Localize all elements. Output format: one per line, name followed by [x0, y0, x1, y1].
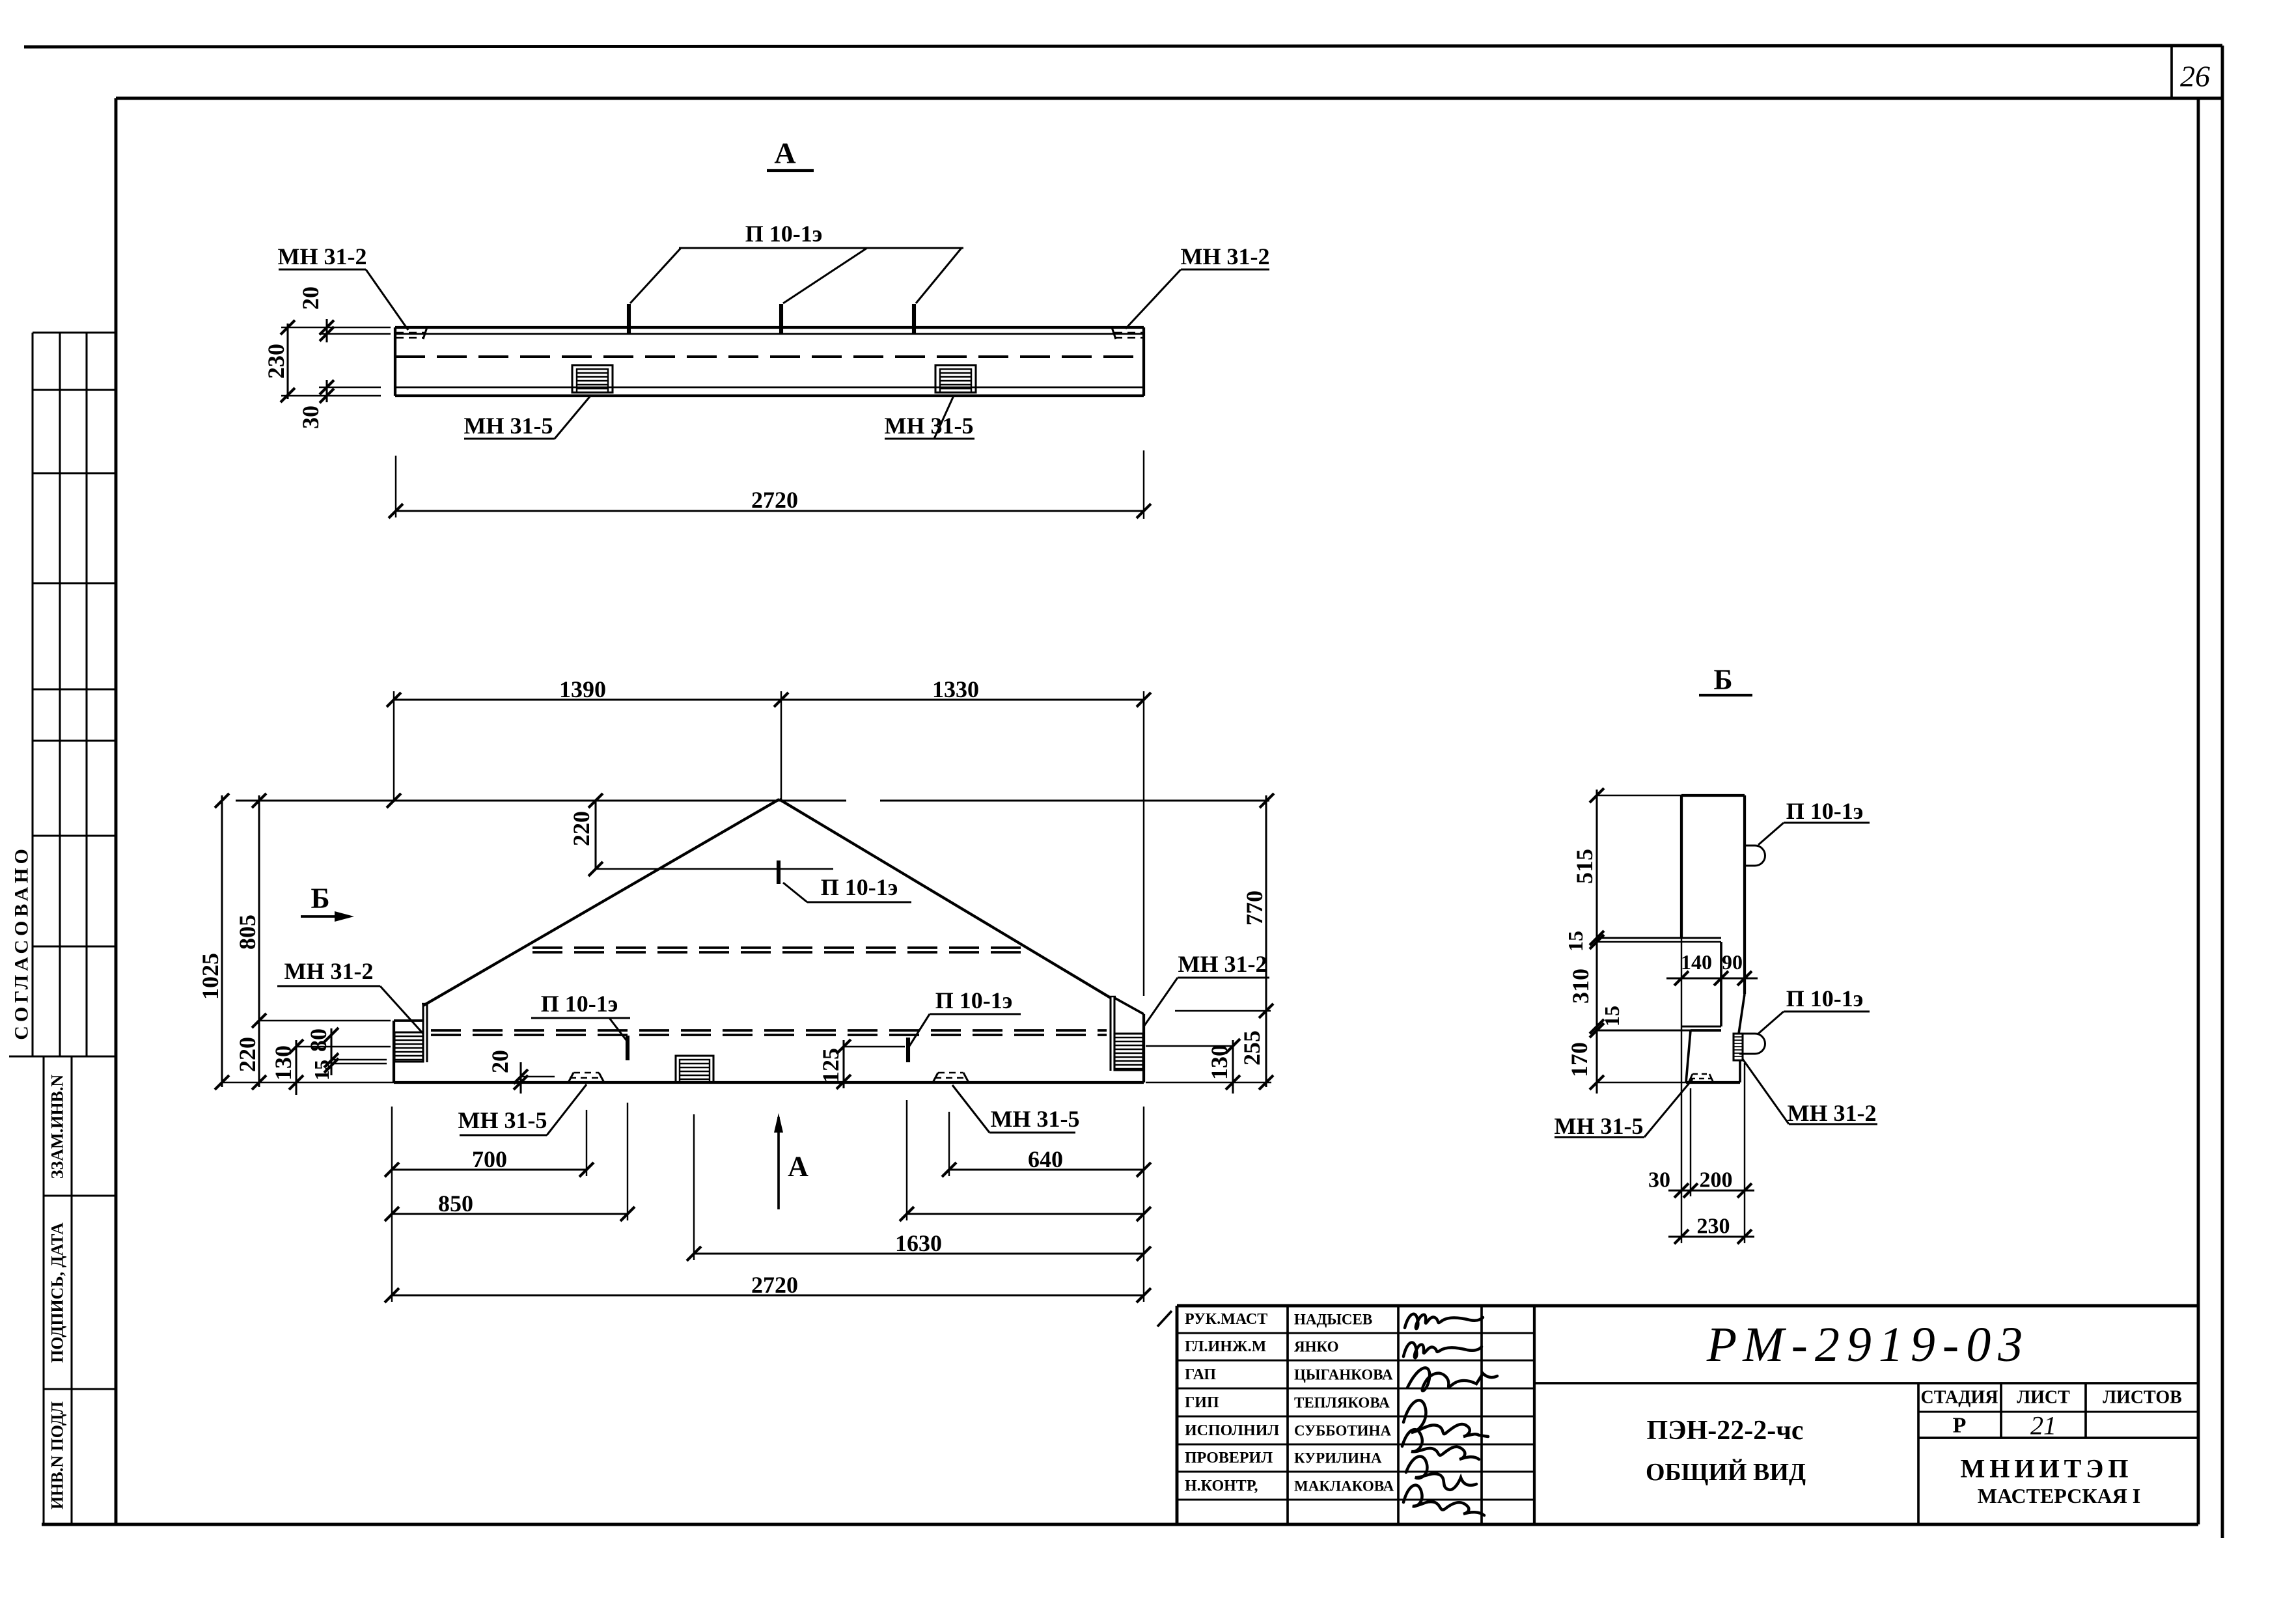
svg-text:805: 805 [234, 915, 260, 950]
svg-text:А: А [774, 137, 795, 170]
plan panel lower inner line [395, 387, 1144, 389]
section bottom extension line [1597, 1082, 1686, 1083]
anchor MN 31-5 right dashed [933, 1073, 938, 1082]
section left face extension to dims [1681, 938, 1682, 1243]
plan extension lines [281, 327, 391, 328]
elevation dimension 805 and 220 chain [258, 795, 260, 1087]
svg-text:ТЕПЛЯКОВА: ТЕПЛЯКОВА [1294, 1395, 1390, 1411]
title block column lines [1286, 1306, 1289, 1524]
section mark A arrow [777, 1117, 780, 1209]
svg-text:Б: Б [311, 883, 329, 915]
svg-text:МНИИТЭП: МНИИТЭП [1960, 1454, 2133, 1483]
plan panel dashed axis line [395, 355, 1144, 358]
svg-text:Р: Р [1953, 1414, 1967, 1438]
section recess bottom second line [1597, 1029, 1721, 1031]
svg-text:850: 850 [438, 1190, 473, 1217]
elevation dimension 1025 [221, 795, 223, 1087]
elevation dimension 850 [392, 1213, 628, 1215]
svg-text:26: 26 [2180, 60, 2210, 93]
svg-text:230: 230 [1697, 1215, 1730, 1239]
svg-text:220: 220 [568, 811, 594, 846]
svg-text:МН 31-2: МН 31-2 [278, 243, 367, 269]
section lifting loop P 10-1e upper [1745, 846, 1765, 866]
svg-text:МН 31-2: МН 31-2 [1178, 951, 1267, 977]
svg-text:30: 30 [1648, 1168, 1670, 1192]
section step second line 15 below [1597, 941, 1721, 943]
plan dimension 230 [286, 323, 288, 399]
svg-text:РМ-2919-03: РМ-2919-03 [1706, 1317, 2030, 1372]
section recess left edge [1720, 942, 1722, 1026]
elevation dimension 130 right [1232, 1040, 1234, 1094]
svg-text:80: 80 [305, 1028, 331, 1052]
section lifting loop P 10-1e lower [1739, 1034, 1765, 1054]
gable left slope [423, 799, 779, 1006]
svg-text:ОБЩИЙ ВИД: ОБЩИЙ ВИД [1646, 1459, 1806, 1486]
svg-text:П 10-1э: П 10-1э [1786, 985, 1864, 1012]
svg-text:125: 125 [818, 1048, 844, 1083]
title block signatures [1405, 1314, 1483, 1328]
svg-text:15: 15 [1600, 1006, 1624, 1026]
svg-text:515: 515 [1571, 849, 1597, 884]
svg-text:140: 140 [1681, 950, 1712, 974]
sidebar approval table rows [33, 331, 116, 333]
section right face lower slant [1739, 994, 1745, 1034]
lifting loop P 10-1e elevation right [906, 1038, 910, 1062]
title block divider under document number [1534, 1382, 2198, 1384]
elevation dimension 130 left [295, 1040, 297, 1095]
plan panel bottom edge [395, 394, 1144, 397]
section profile right face [1743, 795, 1746, 994]
svg-text:ПОДПИСЬ, ДАТА: ПОДПИСЬ, ДАТА [48, 1222, 67, 1363]
svg-text:170: 170 [1566, 1042, 1592, 1077]
svg-text:МН 31-5: МН 31-5 [458, 1107, 547, 1133]
section anchor MN 31-2 hatched [1734, 1034, 1743, 1060]
sheet number box 26 [2170, 47, 2173, 98]
plan dimension 2720 [396, 510, 1144, 512]
svg-text:Б: Б [1713, 664, 1732, 696]
svg-text:СОГЛАСОВАНО: СОГЛАСОВАНО [11, 845, 33, 1040]
svg-text:ЦЫГАНКОВА: ЦЫГАНКОВА [1294, 1367, 1393, 1383]
title block personnel rows [1177, 1332, 1534, 1334]
right end step slant [1114, 998, 1144, 1014]
gable right slope [779, 799, 1111, 998]
svg-text:МН 31-2: МН 31-2 [1788, 1100, 1877, 1126]
svg-text:П 10-1э: П 10-1э [821, 874, 898, 900]
drawing frame right inner border [2197, 98, 2200, 1524]
drawing frame top border [116, 97, 2222, 100]
elevation dimension extension lines top [393, 691, 394, 802]
svg-text:ГАП: ГАП [1185, 1366, 1216, 1383]
svg-text:ЛИСТОВ: ЛИСТОВ [2103, 1388, 2182, 1408]
sidebar lower columns [42, 1056, 44, 1524]
elevation dimension 700 [392, 1168, 587, 1170]
drawing frame left border [115, 98, 118, 1524]
section profile top edge [1681, 794, 1745, 797]
svg-text:1025: 1025 [197, 953, 223, 1000]
svg-text:КУРИЛИНА: КУРИЛИНА [1294, 1450, 1382, 1466]
svg-text:ЯНКО: ЯНКО [1294, 1339, 1339, 1355]
left end top edge [394, 1019, 423, 1022]
anchor MN 31-5 left dashed [568, 1073, 573, 1082]
elevation dimension 640 [949, 1168, 1144, 1170]
svg-text:П 10-1э: П 10-1э [541, 991, 618, 1017]
svg-text:МН 31-2: МН 31-2 [1181, 243, 1270, 269]
svg-text:СУББОТИНА: СУББОТИНА [1294, 1423, 1391, 1439]
svg-text:СТАДИЯ: СТАДИЯ [1921, 1388, 1998, 1408]
svg-text:20: 20 [487, 1050, 513, 1073]
svg-text:ЛИСТ: ЛИСТ [2017, 1388, 2070, 1408]
svg-text:МН 31-5: МН 31-5 [1555, 1113, 1644, 1139]
section dimension 230 [1668, 1235, 1754, 1237]
section step line 515 level [1597, 937, 1721, 939]
section lower part left slant [1686, 1030, 1691, 1082]
svg-text:30: 30 [297, 406, 324, 429]
title block outer frame [1177, 1304, 2198, 1308]
svg-text:130: 130 [1206, 1045, 1232, 1080]
sidebar approval table verticals [31, 333, 33, 1056]
plan panel left edge [394, 327, 396, 396]
panel right edge [1142, 1014, 1145, 1082]
lifting loop P 10-1e elevation left [626, 1036, 629, 1060]
svg-text:МН 31-5: МН 31-5 [885, 413, 974, 439]
svg-text:Н.КОНТР,: Н.КОНТР, [1185, 1478, 1258, 1494]
plan dimension 30 [325, 380, 327, 402]
elevation dimension 15 [324, 1058, 339, 1073]
svg-text:20: 20 [297, 286, 324, 310]
section bottom extension verticals [1690, 1088, 1691, 1196]
svg-text:770: 770 [1241, 890, 1267, 926]
plan right notch MN 31-2 dashed [1114, 332, 1143, 333]
elevation dimension 220 at apex [594, 801, 596, 869]
lifting loop P 10-1e elevation apex [777, 860, 781, 884]
svg-text:2720: 2720 [751, 1272, 798, 1298]
elevation dimension 1630 [694, 1252, 1144, 1254]
svg-text:1330: 1330 [932, 676, 979, 702]
section top extension line [1597, 795, 1681, 796]
right end rib double line [1109, 997, 1111, 1071]
page top border line [24, 46, 2222, 47]
elevation dimension 20 [519, 1062, 521, 1094]
svg-text:МАСТЕРСКАЯ I: МАСТЕРСКАЯ I [1978, 1484, 2140, 1507]
svg-text:ГЛ.ИНЖ.М: ГЛ.ИНЖ.М [1185, 1338, 1266, 1355]
sidebar lower row dividers [44, 1194, 116, 1196]
section profile left face [1680, 795, 1683, 938]
svg-text:310: 310 [1568, 969, 1594, 1004]
section dimension 140 and 90 [1666, 977, 1758, 979]
section lower right edge [1739, 1060, 1741, 1082]
svg-text:130: 130 [270, 1045, 296, 1080]
section anchor MN 31-5 dashed [1689, 1074, 1693, 1082]
elevation top reference line [236, 799, 846, 801]
elevation dimension 125 [842, 1040, 844, 1088]
section lower part top edge [1691, 1029, 1721, 1032]
section recess bottom first line [1681, 1025, 1721, 1027]
plan lifting loop P 10-1e right [912, 304, 916, 333]
elevation dimension 2720 [392, 1294, 1144, 1296]
elevation top reference extension ticks [1260, 793, 1274, 808]
svg-text:255: 255 [1239, 1030, 1265, 1066]
svg-text:700: 700 [472, 1146, 507, 1172]
plan lifting loop P 10-1e middle [779, 304, 783, 333]
svg-text:ЗЗАМ.ИНВ.N: ЗЗАМ.ИНВ.N [48, 1075, 67, 1179]
svg-text:П 10-1э: П 10-1э [935, 987, 1013, 1013]
svg-text:П 10-1э: П 10-1э [745, 221, 823, 247]
elevation dimension 770 and 255 chain [1265, 795, 1267, 1087]
plan panel top edge [395, 326, 1144, 329]
svg-text:ПЭН-22-2-чс: ПЭН-22-2-чс [1646, 1416, 1803, 1446]
svg-text:21: 21 [2030, 1411, 2056, 1440]
svg-text:ГИП: ГИП [1185, 1394, 1219, 1411]
svg-text:220: 220 [234, 1037, 260, 1072]
elevation dimension 80 [330, 1028, 332, 1075]
plan anchor block MN 31-5 right [935, 365, 976, 392]
svg-text:90: 90 [1722, 950, 1743, 974]
plan dimension 20 [325, 319, 327, 342]
elevation bottom extension lines [391, 1107, 393, 1302]
elevation dashed pair in gable [532, 946, 1026, 949]
anchor block MN 31-2 left end hatched [394, 1032, 423, 1062]
svg-text:640: 640 [1028, 1146, 1063, 1172]
elevation dashed axis pair in strip [431, 1029, 1107, 1032]
title block stage columns [1917, 1383, 1920, 1524]
svg-text:РУК.МАСТ: РУК.МАСТ [1185, 1311, 1267, 1328]
panel left edge [393, 1021, 395, 1082]
panel bottom edge [394, 1081, 1144, 1084]
svg-text:ИСПОЛНИЛ: ИСПОЛНИЛ [1185, 1422, 1279, 1439]
page right outer border [2221, 46, 2224, 1538]
section bottom edge [1686, 1081, 1740, 1084]
bottom edge extensions [222, 1082, 394, 1083]
svg-text:1630: 1630 [895, 1230, 942, 1256]
title block check mark [1157, 1311, 1172, 1327]
svg-text:15: 15 [310, 1060, 333, 1080]
svg-text:МН 31-2: МН 31-2 [284, 958, 374, 984]
plan panel right edge [1142, 327, 1145, 396]
anchor block MN 31-2 right end hatched [1114, 1034, 1143, 1070]
plan lifting loop P 10-1e left [627, 304, 631, 333]
svg-text:МАКЛАКОВА: МАКЛАКОВА [1294, 1478, 1394, 1494]
svg-text:МН 31-5: МН 31-5 [991, 1106, 1080, 1132]
plan panel upper inner line [395, 333, 1144, 335]
svg-text:200: 200 [1700, 1168, 1733, 1192]
section left dimension chain line [1596, 790, 1597, 1094]
anchor block MN 31-2 center [676, 1056, 713, 1082]
drawing frame bottom border [42, 1523, 2198, 1526]
svg-text:ИНВ.N ПОДЛ: ИНВ.N ПОДЛ [48, 1401, 67, 1509]
svg-text:1390: 1390 [559, 676, 606, 702]
svg-text:230: 230 [263, 344, 289, 379]
elevation chain dimension right segment [907, 1213, 1144, 1215]
section dimension 30 and 200 [1668, 1189, 1754, 1191]
svg-text:П 10-1э: П 10-1э [1786, 798, 1864, 824]
plan anchor block MN 31-5 left [572, 365, 613, 392]
svg-text:15: 15 [1564, 931, 1587, 952]
plan left notch MN 31-2 dashed [396, 332, 424, 333]
elevation dimension 1390 [394, 698, 1144, 700]
svg-text:НАДЫСЕВ: НАДЫСЕВ [1294, 1312, 1372, 1328]
svg-text:МН 31-5: МН 31-5 [464, 413, 553, 439]
left end rib double line [422, 1004, 424, 1062]
svg-text:А: А [788, 1151, 808, 1183]
svg-text:2720: 2720 [751, 487, 798, 513]
svg-text:ПРОВЕРИЛ: ПРОВЕРИЛ [1185, 1450, 1273, 1466]
